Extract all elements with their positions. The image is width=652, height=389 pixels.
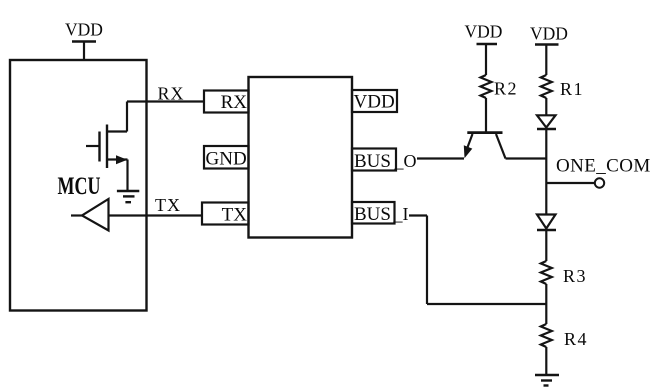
resistor R2 [481,75,519,132]
op-amp U1 body (bus transceiver IC) [249,77,353,238]
svg-text:ONE_COM: ONE_COM [556,156,651,177]
svg-text:RX: RX [221,92,248,113]
svg-text:RX: RX [158,84,185,104]
wire D2 to R3 [545,230,547,261]
pin GND [204,146,249,170]
resistor R4 [541,324,588,349]
svg-text:R1: R1 [560,79,584,99]
power VDD (MCU supply) [65,20,103,61]
wire BUS_I return [409,216,546,305]
wire TX [109,214,203,216]
ground (bottom) [535,375,559,386]
diode D1 [537,115,556,129]
svg-text:VDD: VDD [530,24,568,44]
svg-text:BUS: BUS [354,204,391,225]
resistor R1 [541,75,584,115]
resistor R3 [541,261,587,286]
wire R4 to ground [545,347,547,375]
svg-text:R3: R3 [563,266,587,286]
wire main bus line [545,129,547,215]
svg-text:R4: R4 [564,329,588,349]
power VDD (R2 branch) [465,22,503,76]
svg-text:_I: _I [393,204,409,224]
svg-text:VDD: VDD [354,92,395,113]
pin RX [204,91,249,114]
wire RX [127,100,204,102]
svg-text:_O: _O [394,151,417,171]
wire R3 to R4 junction [545,284,547,324]
svg-text:VDD: VDD [65,20,103,40]
pin VDD [352,90,397,113]
op-amp buffer (TX driver) [71,199,109,231]
diode D2 [537,215,556,231]
wire BUS_O to transistor emitter [417,157,464,159]
svg-text:R2: R2 [494,79,518,99]
svg-text:BUS: BUS [354,151,391,172]
MCU box [10,60,147,311]
svg-text:TX: TX [155,195,181,215]
pin BUS_I [352,202,409,225]
pin TX [202,203,249,226]
transistor Q (NMOS in MCU) [86,102,128,192]
transistor Q1 (PNP driver) [464,133,547,159]
svg-text:TX: TX [222,205,248,226]
svg-text:MCU: MCU [58,172,101,200]
svg-text:VDD: VDD [465,22,503,42]
node ONE_COM [546,156,650,188]
pin BUS_O [352,149,417,173]
svg-text:GND: GND [206,149,247,170]
ground (MCU internal) [117,191,139,202]
power VDD (R1 branch) [530,24,568,76]
